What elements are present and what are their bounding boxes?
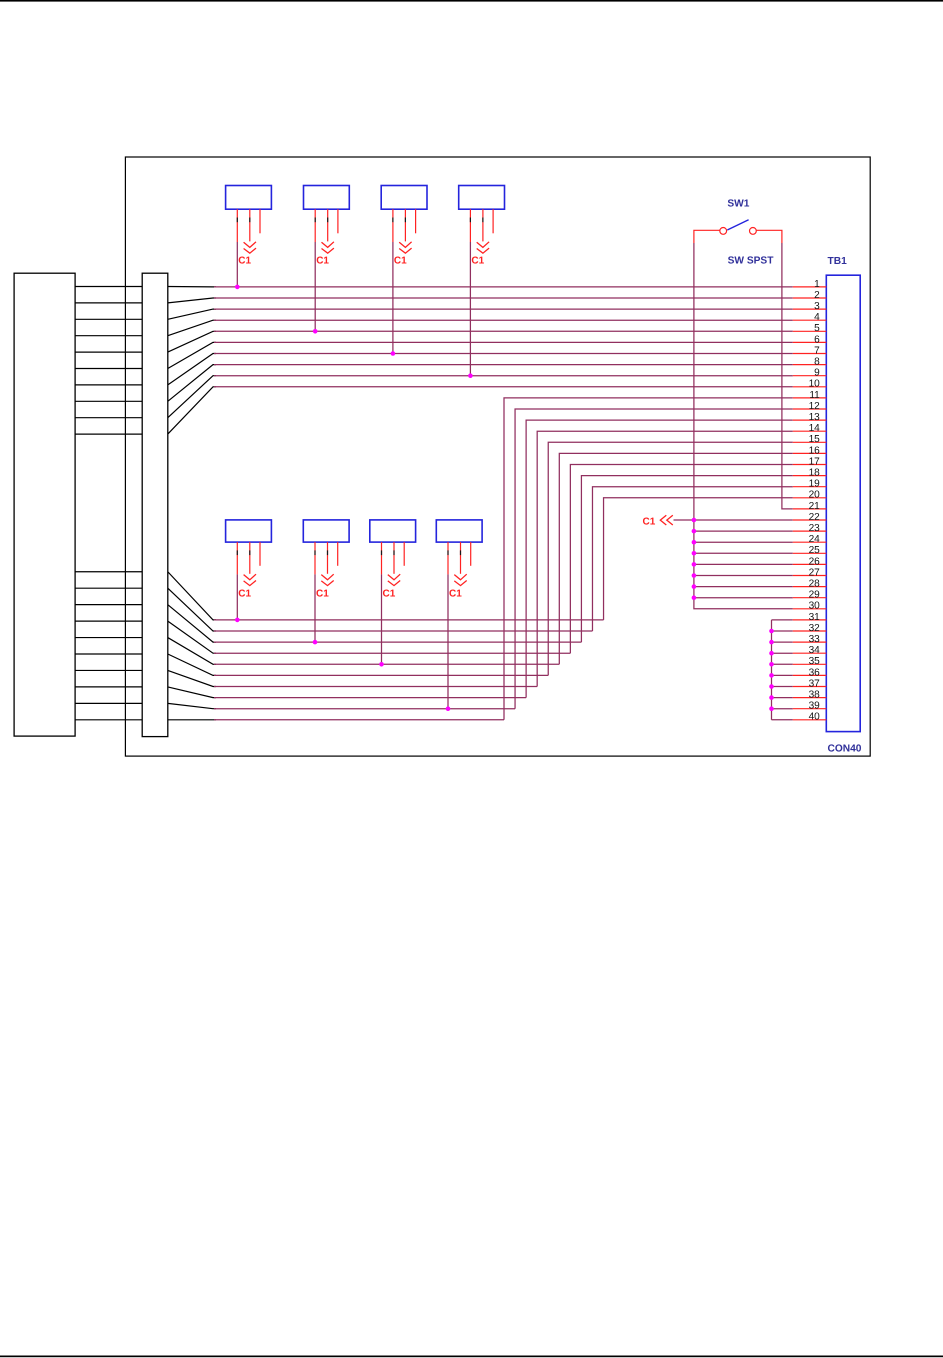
- wire stub J1-J2 bottom pin 39: [75, 702, 168, 704]
- TB1 pin stub 35: [793, 663, 827, 665]
- chevron marker: [321, 574, 333, 585]
- svg-text:28: 28: [809, 579, 821, 590]
- C1 pin 2 (middle): [249, 542, 251, 574]
- svg-text:2: 2: [814, 290, 820, 301]
- wire net row 4: [214, 319, 793, 321]
- TB1 pin stub 6: [793, 341, 827, 343]
- svg-text:32: 32: [809, 623, 821, 634]
- junction row 27 at SW1 branch: [692, 573, 697, 578]
- C1 box body 3: [381, 186, 427, 210]
- off-page connector C1 at row 22: [643, 515, 694, 527]
- wire C1 pin1 to row 33: [314, 574, 316, 642]
- wire net row 23: [694, 530, 793, 532]
- C1 pin 3 (right): [415, 209, 417, 233]
- wire stub J1-J2 top pin 6: [75, 368, 168, 370]
- TB1 pin stub 32: [793, 630, 827, 632]
- wire C1 pin1 to row 1: [236, 242, 238, 287]
- svg-text:C1: C1: [316, 588, 329, 599]
- TB1 pin stub 7: [793, 353, 827, 355]
- wire net row 6: [214, 341, 793, 343]
- TB1 pin stub 22: [793, 519, 827, 521]
- wire net row 35 (bus to TB1): [772, 663, 793, 665]
- capacitor C1 (box 3): [381, 186, 427, 354]
- TB1 pin stub 23: [793, 530, 827, 532]
- svg-text:20: 20: [809, 490, 821, 501]
- wire stub J1-J2 top pin 1: [75, 286, 168, 288]
- C1 box body 7: [370, 520, 416, 542]
- wire stub J1-J2 bottom pin 32: [75, 587, 168, 589]
- SW1 left terminal circle: [720, 228, 727, 235]
- svg-text:39: 39: [809, 701, 821, 712]
- wire net row 8: [214, 364, 793, 366]
- C1 pin 2 (middle): [249, 209, 251, 241]
- wire stub J1-J2 bottom pin 40: [75, 719, 168, 721]
- wire diagonal fan bottom pin 36: [168, 654, 216, 675]
- svg-text:CON40: CON40: [828, 743, 862, 754]
- wire stub J1-J2 top pin 10: [75, 433, 168, 435]
- svg-text:35: 35: [809, 656, 821, 667]
- pin shadow ticks: [381, 550, 383, 555]
- wire net row 34 (lower left): [214, 652, 570, 654]
- C1 pin 3 (right): [337, 209, 339, 233]
- wire net row 26: [694, 563, 793, 565]
- wire C1 pin1 to row 31: [236, 574, 238, 620]
- TB1 pin stub 13: [793, 419, 827, 421]
- wire SW1 left branch vertical to row 30: [694, 243, 793, 609]
- chevron marker: [244, 574, 256, 585]
- svg-text:12: 12: [809, 401, 821, 412]
- TB1 pin stub 21: [793, 508, 827, 510]
- wire diagonal fan top pin 4: [168, 320, 216, 336]
- capacitor C1 (box 5): [226, 520, 272, 620]
- TB1 pin stub 24: [793, 541, 827, 543]
- wire stub J1-J2 top pin 5: [75, 351, 168, 353]
- schematic border frame: [125, 157, 870, 756]
- junction row 9: [468, 373, 473, 378]
- wire stub J1-J2 top pin 9: [75, 417, 168, 419]
- junction row 25 at SW1 branch: [692, 551, 697, 556]
- TB1 pin stub 11: [793, 397, 827, 399]
- wire net row 37 (lower left): [214, 686, 537, 688]
- SW1 right terminal circle: [750, 228, 757, 235]
- svg-text:33: 33: [809, 634, 821, 645]
- pin shadow ticks: [469, 218, 471, 223]
- svg-text:3: 3: [814, 301, 820, 312]
- wire net row 1: [214, 286, 793, 288]
- pin shadow ticks: [314, 550, 316, 555]
- svg-text:C1: C1: [383, 588, 396, 599]
- wire C1 pin1 to row 7: [392, 242, 394, 354]
- capacitor C1 (box 1): [226, 186, 272, 287]
- junction row 7: [391, 351, 396, 356]
- svg-text:8: 8: [814, 357, 820, 368]
- C1 pin 2 (middle): [460, 542, 462, 574]
- junction row 1: [235, 285, 240, 290]
- wire net row 34 (bus to TB1): [772, 652, 793, 654]
- wire stub J1-J2 bottom pin 31: [75, 571, 168, 573]
- wire SW1 left lead: [694, 230, 720, 243]
- C1 box body 5: [226, 520, 272, 542]
- wire net row 40 (lower left): [214, 719, 504, 721]
- chevron marker: [322, 242, 334, 253]
- wire net row 10: [214, 386, 793, 388]
- TB1 pin stub 14: [793, 430, 827, 432]
- TB1 pin stub 17: [793, 464, 827, 466]
- chevron arrows: [660, 515, 673, 525]
- svg-text:11: 11: [809, 390, 820, 401]
- pin shadow ticks: [314, 218, 316, 223]
- wire net row 22: [694, 519, 793, 521]
- junction row 39 at bus: [769, 706, 774, 711]
- svg-text:36: 36: [809, 667, 821, 678]
- C1 pin 3 (right): [492, 209, 494, 233]
- junction row 29 at SW1 branch: [692, 595, 697, 600]
- chevron marker: [454, 574, 466, 585]
- svg-text:10: 10: [809, 379, 821, 390]
- TB1 pin stub 18: [793, 475, 827, 477]
- wire C1 to row 22: [674, 519, 694, 521]
- wire net row 39 (bus to TB1): [772, 708, 793, 710]
- C1 pin 2 (middle): [404, 209, 406, 241]
- TB1 pin stub 36: [793, 674, 827, 676]
- wire net row 9: [214, 375, 793, 377]
- connector J1 (left outer header): [14, 273, 75, 736]
- svg-text:27: 27: [809, 567, 821, 578]
- TB1 pin stub 27: [793, 575, 827, 577]
- svg-text:30: 30: [809, 601, 821, 612]
- svg-text:4: 4: [814, 312, 820, 323]
- wire C1 pin1 to row 35: [381, 574, 383, 664]
- TB1 pin stub 20: [793, 497, 827, 499]
- C1 box body 4: [459, 186, 505, 210]
- svg-text:C1: C1: [316, 256, 329, 267]
- page top bar: [0, 0, 943, 2]
- wire C1 pin1 to row 39: [447, 574, 449, 708]
- connector TB1 CON40: [793, 256, 862, 754]
- junction row 31: [235, 618, 240, 623]
- C1 pin 3 (right): [337, 542, 339, 566]
- svg-text:C1: C1: [449, 588, 462, 599]
- wire net row 37 (bus to TB1): [772, 686, 793, 688]
- wire stub J1-J2 bottom pin 34: [75, 620, 168, 622]
- SW1 lever: [727, 220, 748, 230]
- wire net row 31 (bus to TB1): [772, 619, 793, 621]
- TB1 pin stub 26: [793, 563, 827, 565]
- wire stub J1-J2 bottom pin 33: [75, 604, 168, 606]
- svg-text:19: 19: [809, 479, 821, 490]
- pin shadow ticks: [236, 550, 238, 555]
- capacitor C1 (box 8): [436, 520, 482, 709]
- capacitor C1 (box 4): [459, 186, 505, 376]
- wire net row 3: [214, 308, 793, 310]
- wire diagonal fan bottom pin 34: [168, 621, 216, 653]
- TB1 pin stub 37: [793, 686, 827, 688]
- junction row 37 at bus: [769, 684, 774, 689]
- junction row 23 at SW1 branch: [692, 529, 697, 534]
- wire stub J1-J2 top pin 7: [75, 384, 168, 386]
- svg-text:18: 18: [809, 468, 821, 479]
- chevron marker: [388, 574, 400, 585]
- wire riser net 19 (row 19 to row 32): [592, 487, 792, 631]
- wire net row 39 (lower left): [214, 708, 515, 710]
- wire stub J1-J2 bottom pin 37: [75, 669, 168, 671]
- junction row 38 at bus: [769, 695, 774, 700]
- switch SW1: [694, 199, 782, 267]
- capacitor C1 (box 6): [303, 520, 349, 642]
- svg-text:17: 17: [809, 456, 821, 467]
- pin shadow ticks: [447, 550, 449, 555]
- wire diagonal fan bottom pin 40: [168, 719, 216, 721]
- junction row 22 at SW1 branch: [692, 518, 697, 523]
- TB1 pin stub 38: [793, 697, 827, 699]
- wire C1 pin1 to row 9: [469, 242, 471, 376]
- TB1 pin stub 2: [793, 297, 827, 299]
- C1 pin 2 (middle): [393, 542, 395, 574]
- TB1 pin stub 29: [793, 597, 827, 599]
- wire riser net 12 (row 12 to row 39): [515, 409, 793, 709]
- C1 pin 1 (left): [392, 209, 394, 242]
- svg-text:26: 26: [809, 556, 821, 567]
- svg-text:C1: C1: [238, 588, 251, 599]
- chevron marker: [477, 242, 489, 253]
- svg-text:38: 38: [809, 690, 821, 701]
- wire stub J1-J2 top pin 2: [75, 302, 168, 304]
- svg-text:1: 1: [814, 279, 820, 290]
- C1 box body 6: [303, 520, 349, 542]
- svg-text:C1: C1: [643, 516, 656, 527]
- wire net row 25: [694, 552, 793, 554]
- wire diagonal fan bottom pin 35: [168, 638, 216, 665]
- wire stub J1-J2 bottom pin 35: [75, 637, 168, 639]
- wire riser net 13 (row 13 to row 38): [526, 420, 793, 697]
- svg-text:24: 24: [809, 534, 821, 545]
- wire diagonal fan bottom pin 32: [168, 588, 216, 631]
- C1 pin 1 (left): [381, 542, 383, 574]
- wire diagonal fan top pin 9: [168, 376, 216, 418]
- svg-text:C1: C1: [394, 256, 407, 267]
- TB1 pin stub 8: [793, 364, 827, 366]
- TB1 pin stub 16: [793, 452, 827, 454]
- wire net row 36 (lower left): [214, 674, 548, 676]
- wire stub J1-J2 top pin 8: [75, 400, 168, 402]
- wire net row 32 (bus to TB1): [772, 630, 793, 632]
- TB1 pin stub 28: [793, 586, 827, 588]
- C1 pin 3 (right): [259, 542, 261, 566]
- wire diagonal fan top pin 6: [168, 342, 216, 368]
- wire riser net 17 (row 17 to row 34): [570, 465, 792, 654]
- junction row 34 at bus: [769, 651, 774, 656]
- wire net row 28: [694, 586, 793, 588]
- wire diagonal fan top pin 5: [168, 331, 216, 352]
- chevron marker: [399, 242, 411, 253]
- wire net row 38 (bus to TB1): [772, 697, 793, 699]
- svg-text:37: 37: [809, 678, 821, 689]
- TB1 pin stub 34: [793, 652, 827, 654]
- page bottom rule: [0, 1356, 943, 1358]
- wire riser net 16 (row 16 to row 35): [559, 453, 793, 664]
- junction row 5: [313, 329, 318, 334]
- TB1 pin stub 25: [793, 552, 827, 554]
- wire diagonal fan bottom pin 38: [168, 687, 216, 698]
- svg-text:25: 25: [809, 545, 821, 556]
- junction row 32 at bus: [769, 629, 774, 634]
- svg-text:SW SPST: SW SPST: [728, 255, 775, 266]
- capacitor C1 (box 2): [304, 186, 350, 332]
- wire riser net 14 (row 14 to row 37): [537, 431, 793, 686]
- svg-text:15: 15: [809, 434, 821, 445]
- wire riser net 15 (row 15 to row 36): [548, 442, 793, 675]
- svg-text:21: 21: [809, 501, 821, 512]
- chevron marker: [244, 242, 256, 253]
- TB1 pin stub 9: [793, 375, 827, 377]
- wire diagonal fan bottom pin 33: [168, 605, 216, 642]
- svg-text:16: 16: [809, 445, 821, 456]
- wire diagonal fan top pin 3: [168, 309, 216, 319]
- svg-text:9: 9: [814, 368, 820, 379]
- junction row 35: [379, 662, 384, 667]
- C1 pin 3 (right): [470, 542, 472, 566]
- wire C1 pin1 to row 5: [314, 242, 316, 331]
- C1 box body 8: [436, 520, 482, 542]
- wire net row 38 (lower left): [214, 697, 526, 699]
- TB1 pin stub 5: [793, 330, 827, 332]
- wire net row 36 (bus to TB1): [772, 674, 793, 676]
- wire diagonal fan bottom pin 39: [168, 703, 216, 708]
- wire net row 31 (lower left): [214, 619, 604, 621]
- wire SW1 right lead: [757, 230, 782, 243]
- C1 pin 3 (right): [259, 209, 261, 233]
- wire stub J1-J2 top pin 3: [75, 318, 168, 320]
- capacitor C1 (box 7): [370, 520, 416, 664]
- wire net row 40 (bus to TB1): [772, 719, 793, 721]
- C1 pin 2 (middle): [482, 209, 484, 241]
- svg-text:22: 22: [809, 512, 821, 523]
- C1 pin 1 (left): [314, 209, 316, 242]
- wire bus vertical pins 31-40: [771, 620, 773, 720]
- wire net row 27: [694, 575, 793, 577]
- junction row 35 at bus: [769, 662, 774, 667]
- junction row 33: [313, 640, 318, 645]
- wire net row 24: [694, 541, 793, 543]
- wire net row 32 (lower left): [214, 630, 592, 632]
- TB1 pin stub 4: [793, 319, 827, 321]
- pin shadow ticks: [236, 218, 238, 223]
- wire stub J1-J2 bottom pin 36: [75, 653, 168, 655]
- TB1 pin stub 12: [793, 408, 827, 410]
- wire net row 2: [214, 297, 793, 299]
- TB1 pin stub 10: [793, 386, 827, 388]
- wire diagonal fan top pin 10: [168, 387, 216, 434]
- wire net row 33 (lower left): [214, 641, 581, 643]
- wire diagonal fan top pin 2: [168, 298, 216, 303]
- wire riser net 20 (row 20 to row 31): [604, 498, 793, 620]
- wire SW1 right branch vertical to row 21: [782, 243, 793, 509]
- svg-text:TB1: TB1: [828, 256, 848, 267]
- TB1 body: [826, 275, 860, 731]
- wire diagonal fan top pin 1: [168, 286, 216, 288]
- TB1 pin stub 19: [793, 486, 827, 488]
- C1 box body 1: [226, 186, 272, 210]
- svg-text:7: 7: [814, 345, 820, 356]
- C1 pin 1 (left): [469, 209, 471, 242]
- junction row 24 at SW1 branch: [692, 540, 697, 545]
- svg-text:40: 40: [809, 712, 821, 723]
- wire diagonal fan bottom pin 37: [168, 670, 216, 686]
- TB1 pin stub 33: [793, 641, 827, 643]
- C1 pin 2 (middle): [327, 209, 329, 241]
- TB1 pin stub 1: [793, 286, 827, 288]
- wire net row 7: [214, 353, 793, 355]
- TB1 pin stub 31: [793, 619, 827, 621]
- wire diagonal fan top pin 7: [168, 354, 216, 385]
- svg-text:13: 13: [809, 412, 821, 423]
- svg-text:31: 31: [809, 612, 821, 623]
- C1 pin 1 (left): [447, 542, 449, 574]
- C1 box body 2: [304, 186, 350, 210]
- wire stub J1-J2 bottom pin 38: [75, 686, 168, 688]
- wire net row 35 (lower left): [214, 663, 559, 665]
- svg-text:23: 23: [809, 523, 821, 534]
- wire diagonal fan bottom pin 31: [168, 572, 216, 620]
- svg-text:14: 14: [809, 423, 821, 434]
- svg-text:C1: C1: [471, 256, 484, 267]
- junction row 28 at SW1 branch: [692, 584, 697, 589]
- svg-text:5: 5: [814, 323, 820, 334]
- junction row 26 at SW1 branch: [692, 562, 697, 567]
- junction row 39: [446, 706, 451, 711]
- junction row 36 at bus: [769, 673, 774, 678]
- wire riser net 18 (row 18 to row 33): [581, 476, 792, 642]
- TB1 pin stub 3: [793, 308, 827, 310]
- wire riser net 11 (row 11 to row 40): [504, 398, 793, 720]
- connector J2 (left inner header): [142, 273, 168, 736]
- svg-text:C1: C1: [238, 256, 251, 267]
- svg-text:6: 6: [814, 334, 820, 345]
- svg-text:34: 34: [809, 645, 821, 656]
- TB1 pin stub 39: [793, 708, 827, 710]
- wire net row 5: [214, 330, 793, 332]
- TB1 pin stub 30: [793, 608, 827, 610]
- wire net row 33 (bus to TB1): [772, 641, 793, 643]
- TB1 pin stub 15: [793, 441, 827, 443]
- C1 pin 1 (left): [314, 542, 316, 574]
- wire net row 29: [694, 597, 793, 599]
- svg-text:29: 29: [809, 590, 821, 601]
- C1 pin 1 (left): [236, 542, 238, 574]
- wire diagonal fan top pin 8: [168, 365, 216, 402]
- svg-text:SW1: SW1: [727, 199, 749, 210]
- C1 pin 3 (right): [403, 542, 405, 566]
- C1 pin 2 (middle): [327, 542, 329, 574]
- TB1 pin stub 40: [793, 719, 827, 721]
- wire stub J1-J2 top pin 4: [75, 335, 168, 337]
- junction row 33 at bus: [769, 640, 774, 645]
- pin shadow ticks: [392, 218, 394, 223]
- C1 pin 1 (left): [236, 209, 238, 242]
